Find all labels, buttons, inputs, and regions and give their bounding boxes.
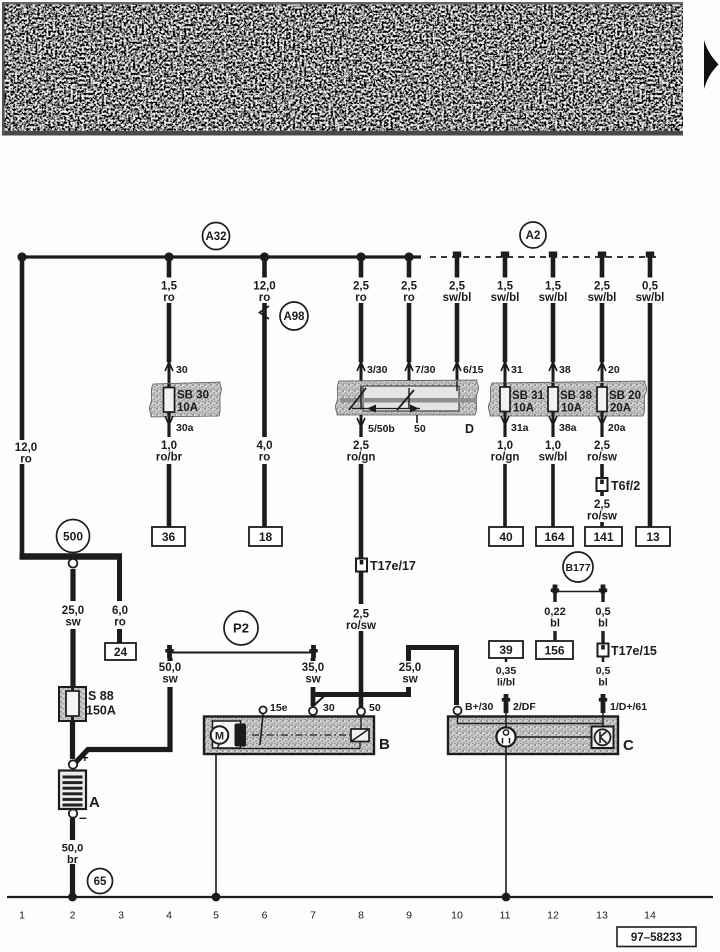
pin 31a mark [501,415,529,434]
svg-text:ro/sw: ro/sw [587,452,617,464]
svg-text:10A: 10A [513,403,534,415]
label A98 [280,302,308,330]
wire 2,5 ro/gn track 8 [347,426,376,558]
svg-text:2,5: 2,5 [594,281,611,293]
svg-text:SB 20: SB 20 [609,390,641,402]
svg-text:D: D [465,422,474,436]
svg-text:10A: 10A [177,402,198,414]
pin 3/30 mark [357,362,388,383]
pin 30a mark [165,415,194,434]
wire starter ground [215,754,217,897]
svg-text:1,5: 1,5 [545,281,562,293]
svg-text:36: 36 [162,530,176,544]
svg-text:38: 38 [559,364,571,376]
svg-text:25,0: 25,0 [62,605,84,617]
pin 20 mark [598,362,620,384]
pin 31 mark [501,362,523,384]
connector T17e/15 [598,644,657,659]
svg-text:5: 5 [213,910,219,922]
wire 0,22 bl [544,592,565,641]
wire 1,0 sw/bl track 12 [539,425,568,527]
pin 50 circle [357,702,381,716]
battery minus terminal [69,809,87,825]
svg-text:500: 500 [63,529,83,543]
wire 12,0 ro track 1 [15,257,37,556]
svg-text:7: 7 [310,910,316,922]
svg-text:9: 9 [406,910,412,922]
wire 1,0 ro/br track 4 lower [156,425,183,527]
svg-text:13: 13 [646,530,660,544]
wire junction bar at node 500 [20,553,123,560]
svg-text:sw/bl: sw/bl [636,292,665,304]
fuse strip SB31 SB38 SB20 [488,381,646,416]
svg-text:1: 1 [19,910,25,922]
svg-text:97–58233: 97–58233 [631,932,682,944]
svg-text:25,0: 25,0 [399,662,421,674]
wire 35,0 sw down to starter pin 30 [311,658,316,706]
wire 1,5 ro track 4 upper [161,257,178,362]
svg-text:3: 3 [118,910,124,922]
svg-text:164: 164 [544,530,564,544]
svg-text:ro/br: ro/br [156,452,183,464]
svg-text:30: 30 [176,364,188,376]
svg-text:6/15: 6/15 [463,364,484,376]
svg-text:T17e/15: T17e/15 [611,644,657,658]
svg-text:4,0: 4,0 [257,440,273,452]
svg-text:S 88: S 88 [88,689,114,703]
connector T6f/2 [597,478,641,493]
wire 2,5 ro track 8 upper [353,257,370,362]
terminal box 36 [152,527,185,546]
wire S88 to battery [70,721,75,759]
svg-text:2,5: 2,5 [594,440,611,452]
connector T17e/17 [356,559,416,574]
wire 1,5 sw/bl track 11 upper [491,257,520,362]
wire 1,5 sw/bl track 12 upper [539,257,568,362]
svg-text:sw/bl: sw/bl [539,452,568,464]
svg-text:15e: 15e [270,702,288,714]
scanned header band [2,2,683,136]
svg-text:2,5: 2,5 [353,440,370,452]
terminal box 40 [489,527,523,546]
node B177 link line [555,591,603,593]
battery plus terminal [69,750,89,769]
label A2 [520,222,546,248]
pin 20a mark [598,415,626,434]
svg-text:sw/bl: sw/bl [588,292,617,304]
svg-text:156: 156 [544,643,564,657]
svg-text:6: 6 [262,910,268,922]
svg-text:20a: 20a [608,422,626,434]
svg-text:1,5: 1,5 [497,281,514,293]
pin 1/D+/61 bolt [599,694,647,713]
svg-text:65: 65 [94,876,107,888]
svg-text:30a: 30a [176,422,194,434]
pin bolt right [601,585,606,594]
page-edge arrow marker [704,40,719,89]
svg-text:–: – [79,809,87,825]
svg-text:sw: sw [65,617,80,629]
svg-text:50: 50 [369,702,381,714]
svg-text:ro/sw: ro/sw [346,620,376,632]
svg-text:10: 10 [451,910,463,922]
pin 38 mark [549,362,571,384]
label 500 [57,520,90,553]
svg-text:31a: 31a [511,422,529,434]
svg-text:SB 38: SB 38 [560,390,593,402]
terminal box 24 [105,643,136,660]
wire 0,35 li/bl [496,658,517,689]
svg-text:ro: ro [403,292,415,304]
wire 1,0 ro/gn track 11 [491,425,520,527]
wire 6,0 ro [112,556,128,643]
label A32 [203,223,230,250]
svg-text:39: 39 [499,643,513,657]
svg-text:12,0: 12,0 [253,281,275,293]
svg-text:20A: 20A [610,403,631,415]
wire 2,5 ro track 9 upper [401,257,418,362]
pin 5/50b mark [357,415,395,435]
svg-text:18: 18 [259,530,273,544]
svg-text:M: M [215,731,224,743]
terminal box 141 [585,527,622,546]
svg-text:B: B [379,736,390,753]
svg-text:B+/30: B+/30 [465,701,493,713]
svg-text:50,0: 50,0 [159,662,181,674]
pin 50 of D [414,415,426,435]
svg-text:ro/sw: ro/sw [587,511,617,523]
pin 15e [259,702,287,714]
wire: battery positive bus 30 (solid) [21,255,421,258]
svg-text:38a: 38a [559,422,577,434]
svg-text:30: 30 [323,702,335,714]
svg-text:T17e/17: T17e/17 [370,559,416,573]
svg-text:10A: 10A [561,403,582,415]
wire 25,0 sw starter to alternator B+ [313,648,457,706]
svg-text:1/D+/61: 1/D+/61 [610,701,647,713]
svg-text:P2: P2 [233,621,249,636]
wire 0,5 bl lower [596,657,611,689]
svg-text:ro: ro [259,452,271,464]
track numbers [19,910,656,922]
svg-text:bl: bl [598,677,607,689]
relay plate D [335,380,478,415]
svg-text:ro: ro [355,292,367,304]
svg-text:2,5: 2,5 [353,609,370,621]
contact stroke at pin 30 [309,693,328,711]
svg-text:5/50b: 5/50b [368,423,395,435]
wire 4,0 ro track 6 lower [257,362,273,527]
svg-text:0,5: 0,5 [596,665,611,677]
svg-text:sw: sw [402,674,417,686]
wire 50,0 sw battery to terminal 50 [76,658,170,762]
svg-text:14: 14 [644,910,656,922]
svg-text:A: A [89,794,100,811]
terminal box 156 [536,641,573,659]
pin 38a mark [549,415,577,434]
node P2 link line [168,652,315,654]
svg-text:35,0: 35,0 [302,662,324,674]
svg-text:ro/gn: ro/gn [347,452,376,464]
wire 12,0 ro track 6 upper [253,257,275,362]
svg-text:B177: B177 [565,562,590,574]
svg-text:SB 30: SB 30 [177,390,209,402]
wire 25,0 sw [62,569,84,687]
svg-text:1,0: 1,0 [161,440,177,452]
svg-text:1,5: 1,5 [161,281,178,293]
pin 6/15 mark [453,362,484,383]
svg-text:A98: A98 [283,311,305,323]
svg-text:3/30: 3/30 [367,364,388,376]
wire alternator ground [505,747,507,898]
pin 7/30 mark [405,362,436,383]
svg-text:11: 11 [500,910,511,922]
svg-text:50: 50 [414,423,426,435]
svg-text:50,0: 50,0 [62,843,83,855]
svg-text:8: 8 [358,910,364,922]
svg-text:2: 2 [70,910,76,922]
fuse SB30 10A [149,382,221,417]
svg-text:bl: bl [598,618,608,630]
terminal box 39 [489,641,523,658]
svg-text:141: 141 [593,530,613,544]
pin bolt left [167,645,172,658]
wire 50,0 br [62,818,83,897]
svg-text:0,22: 0,22 [544,606,565,618]
wire 2,5 ro/sw below T6f/2 [587,492,617,528]
alternator C [448,713,618,754]
svg-text:0,35: 0,35 [496,665,517,677]
fuse S88 150A [59,687,116,721]
connector A98 chevron [260,306,270,319]
svg-text:A32: A32 [205,231,226,243]
svg-text:1,0: 1,0 [545,440,561,452]
svg-text:ro: ro [259,292,271,304]
svg-text:ro: ro [114,617,126,629]
svg-text:4: 4 [166,910,172,922]
svg-text:C: C [623,737,634,754]
svg-text:ro: ro [20,454,32,466]
node A32 bus junction dots [17,252,413,261]
svg-text:li/bl: li/bl [497,677,515,689]
rail junction dots [68,893,510,902]
svg-text:SB 31: SB 31 [512,390,545,402]
junction pin circle [69,559,78,568]
svg-text:2,5: 2,5 [401,281,418,293]
svg-text:12: 12 [547,910,559,922]
pin 30 circle [309,702,335,715]
wire 2,5 ro/sw track 13 [587,425,617,478]
starter motor B [204,714,374,754]
svg-text:13: 13 [596,910,608,922]
battery A [59,771,100,812]
bus pin taps tracks 10-14 [453,252,654,258]
svg-text:sw: sw [305,674,320,686]
wire 0,5 sw/bl track 14 upper [636,257,665,527]
svg-text:2,5: 2,5 [449,281,466,293]
wire 2,5 sw/bl track 13 upper [588,257,617,362]
pin 30 mark [165,362,188,385]
wire: terminal X bus (dash) [430,256,657,258]
svg-text:A2: A2 [526,230,541,242]
svg-text:ro/gn: ro/gn [491,452,520,464]
terminal box 18 [249,527,282,546]
pin B+/30 circle [454,701,494,715]
svg-text:150A: 150A [86,704,116,718]
svg-text:sw/bl: sw/bl [491,292,520,304]
svg-text:2,5: 2,5 [353,281,370,293]
pin bolt right [311,645,316,658]
label B177 [563,552,593,582]
pin bolt left [553,585,558,594]
diagram number 97-58233 [617,927,696,947]
svg-text:sw: sw [162,674,177,686]
wire 2,5 sw/bl track 10 upper [443,257,472,362]
svg-text:40: 40 [499,530,513,544]
wire 2,5 ro/sw track 8 lower [346,572,376,708]
svg-text:2,5: 2,5 [594,499,611,511]
svg-text:7/30: 7/30 [415,364,436,376]
ground rail [7,896,713,898]
pin 2/DF bolt [502,694,537,713]
label P2 [224,611,258,645]
ground label 65 [88,869,113,894]
svg-text:0,5: 0,5 [642,281,659,293]
svg-text:sw/bl: sw/bl [443,292,472,304]
svg-text:1,0: 1,0 [497,440,513,452]
svg-text:0,5: 0,5 [595,606,610,618]
svg-text:20: 20 [608,364,620,376]
svg-text:6,0: 6,0 [112,605,128,617]
svg-text:24: 24 [114,645,128,659]
svg-text:bl: bl [550,618,560,630]
terminal box 13 [636,527,670,546]
svg-text:sw/bl: sw/bl [539,292,568,304]
svg-text:T6f/2: T6f/2 [611,479,640,493]
wire 0,5 bl upper [595,592,610,644]
svg-text:ro: ro [163,292,175,304]
svg-text:31: 31 [511,364,523,376]
terminal box 164 [536,527,573,546]
svg-text:12,0: 12,0 [15,442,37,454]
svg-text:2/DF: 2/DF [513,701,536,713]
